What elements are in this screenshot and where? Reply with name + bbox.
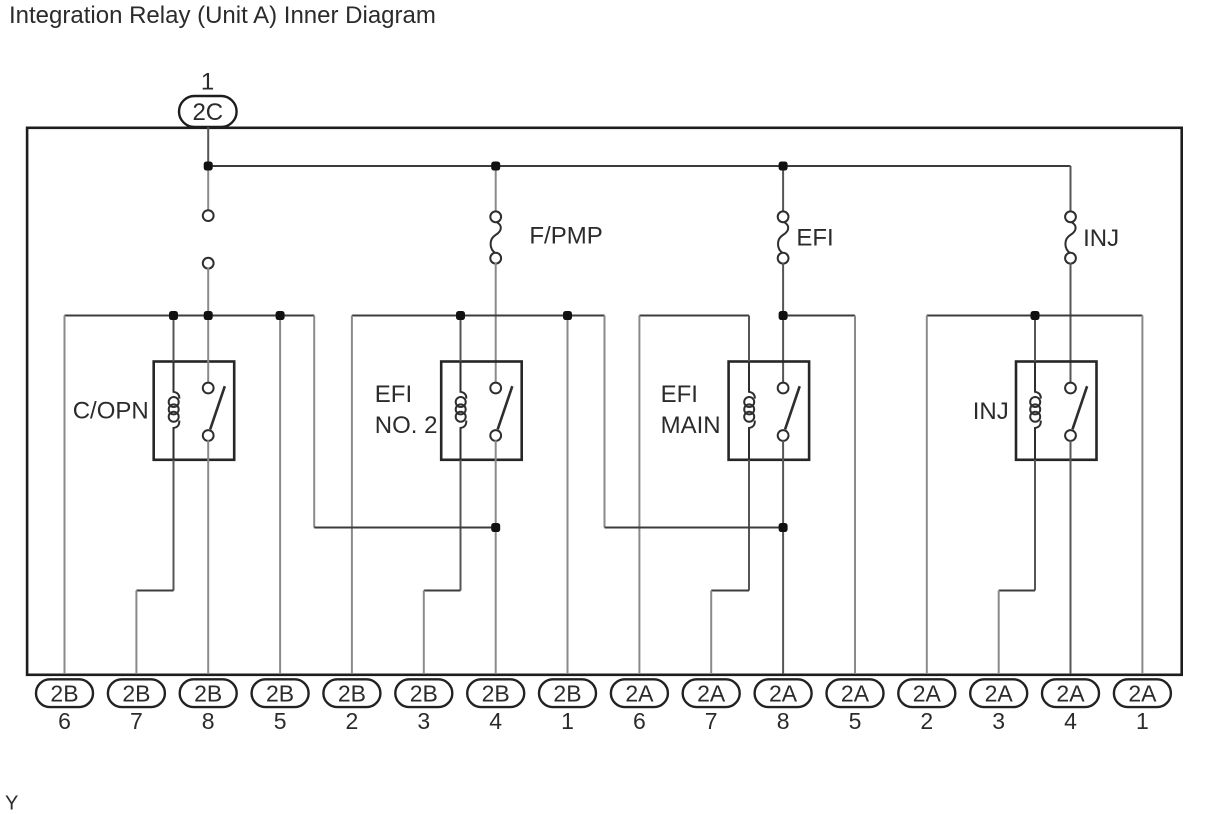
svg-text:NO. 2: NO. 2	[375, 412, 438, 439]
svg-text:2B: 2B	[338, 681, 366, 707]
svg-text:2: 2	[346, 708, 359, 734]
svg-text:EFI: EFI	[661, 381, 698, 408]
svg-text:2B: 2B	[194, 681, 222, 707]
svg-text:3: 3	[992, 708, 1005, 734]
svg-text:1: 1	[561, 708, 574, 734]
svg-text:2B: 2B	[410, 681, 438, 707]
svg-text:8: 8	[202, 708, 215, 734]
svg-text:2A: 2A	[841, 681, 870, 707]
svg-text:6: 6	[633, 708, 646, 734]
svg-text:2B: 2B	[266, 681, 294, 707]
svg-text:2A: 2A	[985, 681, 1014, 707]
svg-text:8: 8	[777, 708, 790, 734]
svg-text:5: 5	[274, 708, 287, 734]
svg-text:Y: Y	[5, 793, 18, 814]
svg-text:1: 1	[201, 69, 214, 96]
svg-text:2A: 2A	[697, 681, 726, 707]
svg-text:1: 1	[1136, 708, 1149, 734]
svg-text:4: 4	[1064, 708, 1077, 734]
svg-text:2B: 2B	[50, 681, 78, 707]
svg-text:2: 2	[920, 708, 933, 734]
svg-text:2A: 2A	[1128, 681, 1157, 707]
svg-text:2A: 2A	[913, 681, 942, 707]
svg-text:2B: 2B	[482, 681, 510, 707]
svg-text:2A: 2A	[1056, 681, 1085, 707]
svg-text:7: 7	[130, 708, 143, 734]
svg-text:F/PMP: F/PMP	[529, 223, 602, 250]
svg-text:2A: 2A	[769, 681, 798, 707]
svg-text:MAIN: MAIN	[661, 412, 721, 439]
svg-text:INJ: INJ	[1083, 225, 1119, 252]
svg-text:2B: 2B	[122, 681, 150, 707]
svg-text:6: 6	[58, 708, 71, 734]
svg-text:2C: 2C	[192, 99, 223, 126]
svg-text:C/OPN: C/OPN	[73, 397, 149, 424]
svg-text:3: 3	[417, 708, 430, 734]
svg-text:2A: 2A	[625, 681, 654, 707]
svg-text:2B: 2B	[553, 681, 581, 707]
svg-text:EFI: EFI	[796, 225, 833, 252]
svg-text:7: 7	[705, 708, 718, 734]
svg-text:INJ: INJ	[973, 398, 1009, 425]
svg-text:EFI: EFI	[375, 381, 412, 408]
svg-text:Integration Relay (Unit A) Inn: Integration Relay (Unit A) Inner Diagram	[9, 2, 436, 29]
svg-text:4: 4	[489, 708, 502, 734]
svg-text:5: 5	[849, 708, 862, 734]
